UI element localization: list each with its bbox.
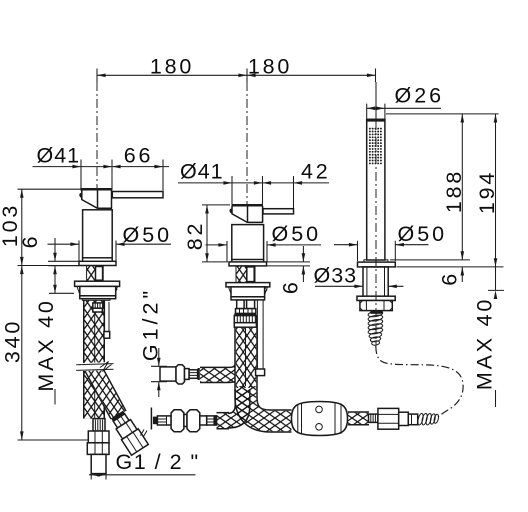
middle spout flange (226, 283, 270, 287)
dim Phi26 shower (367, 104, 441, 120)
dim Phi41/66 left (33, 160, 170, 191)
svg-text:Ø50: Ø50 (398, 222, 448, 246)
centerline hand shower (375, 121, 377, 346)
dim Phi41/42 middle (178, 176, 329, 208)
dim Phi50 shower (334, 241, 429, 261)
hand shower handle (364, 119, 388, 262)
middle spout escutcheon (229, 260, 267, 266)
pressure balancer capsule (292, 402, 348, 436)
hand shower hex nut (360, 301, 392, 314)
bottom left fitting: crimp collar (93, 419, 105, 431)
svg-text:180: 180 (150, 54, 194, 78)
dim 6 middle (267, 246, 310, 282)
dim Phi50 left (48, 241, 172, 262)
centerline left mixer (96, 82, 98, 189)
middle spout body (232, 225, 264, 260)
svg-text:6: 6 (438, 271, 462, 286)
hand shower mounting shaft (363, 267, 388, 296)
left hose crimp detail (93, 303, 103, 312)
svg-text:340: 340 (1, 319, 25, 363)
svg-text:42: 42 (301, 160, 331, 184)
middle spout cap and lever (229, 205, 293, 223)
right chain: tube (408, 414, 417, 425)
fitting A on middle upper-left hose (160, 365, 200, 384)
svg-text:194: 194 (475, 170, 499, 214)
svg-text:MAX 40: MAX 40 (473, 297, 497, 390)
svg-text:6: 6 (279, 279, 303, 294)
union fitting C on middle lower-left hose (141, 408, 218, 437)
middle spout clamp wedges (229, 287, 268, 294)
right chain: spring end (417, 413, 440, 426)
dim 188/194/6 right (386, 114, 504, 282)
dim 6 left and MAX 40 left (48, 238, 79, 405)
braided hose left diagonal (93, 367, 119, 415)
right chain: hex nut (378, 408, 399, 429)
centerline middle spout (246, 82, 248, 205)
bottom left fitting: G1/2 pipe (91, 454, 106, 473)
braided hose right of balancer (348, 411, 369, 425)
left mixer cap and lever (79, 189, 163, 208)
hand shower hose coil (368, 310, 384, 346)
left mixer body (83, 210, 113, 258)
left mixer escutcheon (79, 258, 116, 266)
dim 180/180 top (97, 69, 376, 83)
middle spout shank (236, 266, 255, 283)
svg-text:G1/2": G1/2" (139, 287, 163, 361)
middle faucet hose tubes and crimp (234, 300, 256, 327)
left mixer lock block (80, 286, 116, 300)
hand shower flange (357, 296, 395, 300)
svg-text:6: 6 (18, 234, 42, 249)
braided hose middle A (upper left branch) (200, 336, 244, 375)
dim 103/340 left line (18, 189, 89, 440)
braided hose left vertical (83, 300, 106, 418)
left mixer flange (75, 281, 120, 286)
dim Phi50 middle (206, 241, 322, 262)
middle mounting stud (256, 300, 265, 376)
left mounting stud (104, 302, 110, 338)
svg-text:Ø50: Ø50 (272, 222, 322, 246)
hose break symbol (76, 362, 114, 372)
extension line hand shower top (375, 82, 377, 120)
phantom curve hand shower hose (376, 346, 463, 418)
right chain: collar (399, 412, 409, 425)
braided hose middle B (main bundle to balancer) (246, 327, 292, 421)
45 degree fitting on diagonal hose (109, 409, 149, 455)
hand shower spray face dots (369, 128, 382, 165)
dim G1/2 bottom (89, 470, 196, 480)
dim MAX 40 right (488, 267, 504, 407)
dim G1/2 fitting A (151, 348, 167, 397)
dim Phi33 shower (315, 285, 404, 289)
svg-text:G1 / 2 ": G1 / 2 " (116, 450, 200, 474)
svg-text:MAX 40: MAX 40 (34, 298, 58, 391)
svg-text:Ø50: Ø50 (123, 223, 173, 247)
svg-text:Ø41: Ø41 (180, 160, 224, 184)
bottom left fitting: hex nut 2 (87, 443, 109, 455)
svg-text:82: 82 (183, 221, 207, 251)
svg-text:Ø33: Ø33 (314, 264, 358, 288)
right chain: ribbed collar (369, 414, 378, 422)
left mixer shank (87, 266, 104, 282)
svg-text:180: 180 (248, 54, 292, 78)
svg-text:Ø26: Ø26 (395, 84, 445, 108)
svg-text:188: 188 (442, 169, 466, 213)
svg-text:66: 66 (124, 144, 154, 168)
left mixer clamp wedges (77, 286, 118, 293)
svg-text:Ø41: Ø41 (37, 144, 81, 168)
hand shower escutcheon (358, 262, 396, 267)
bottom left fitting: hex nut 1 (88, 431, 109, 443)
middle spout lock block (231, 287, 265, 300)
dim 82 middle (202, 205, 230, 262)
braided hose middle C (lower left branch) (217, 389, 250, 428)
